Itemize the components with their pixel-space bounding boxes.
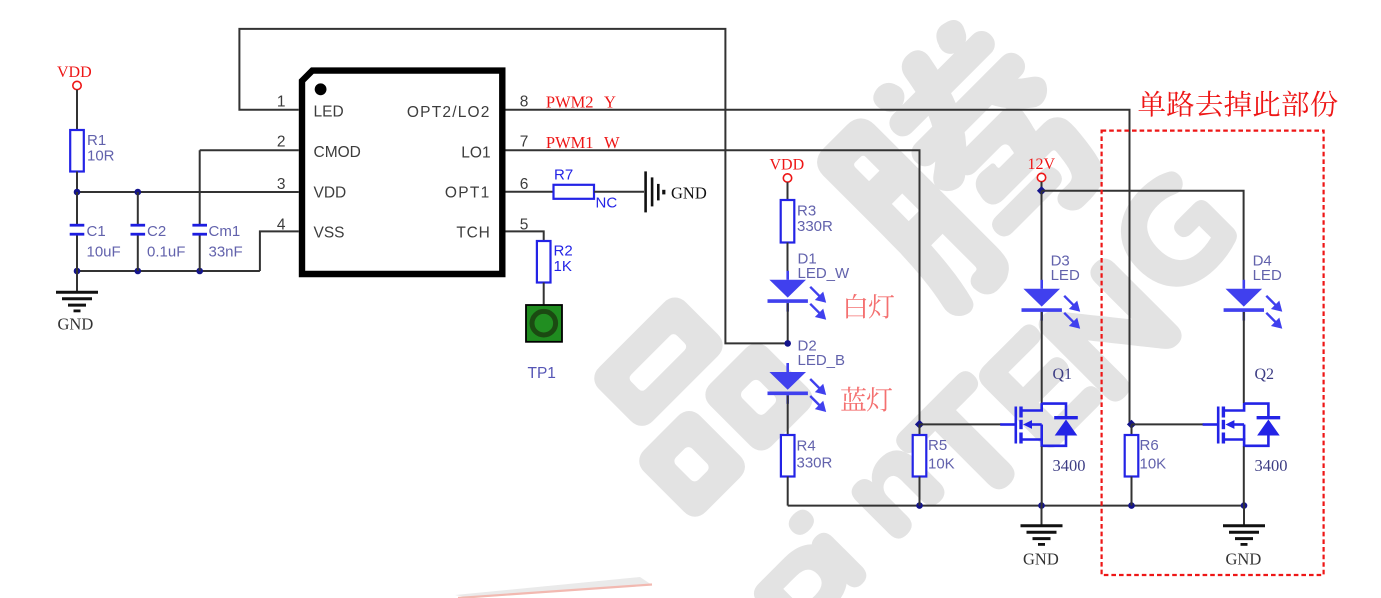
node R5 bottom [916,502,923,509]
diode D3 LED [1040,280,1043,289]
node R5 top gate [915,420,924,429]
svg-text:12V: 12V [1028,156,1056,173]
svg-text:330R: 330R [797,218,833,235]
wire 12V to D4 branch [1042,191,1244,280]
wire 12V to D3 [1041,191,1043,280]
capacitor Cm1 [199,150,201,225]
op-amp U1 touch controller IC body [302,71,502,274]
svg-text:LO1: LO1 [461,144,490,161]
svg-text:OPT2/LO2: OPT2/LO2 [407,104,491,121]
svg-text:TP1: TP1 [528,365,556,382]
wire R5 to Q1 gate [920,423,1002,425]
svg-text:33nF: 33nF [209,244,243,261]
svg-text:1: 1 [277,93,286,110]
wire Q1 source to rail [1041,447,1043,506]
svg-text:R6: R6 [1140,437,1159,454]
svg-text:4: 4 [277,216,286,233]
svg-text:CMOD: CMOD [314,144,361,161]
svg-text:VDD: VDD [314,185,347,202]
resistor R5 [919,424,921,435]
svg-text:R2: R2 [554,243,573,260]
wire VDD to R3 [787,182,789,200]
svg-text:10R: 10R [87,147,115,164]
svg-text:VSS: VSS [314,224,345,241]
svg-text:3400: 3400 [1255,456,1288,475]
diode D4 LED [1243,280,1246,289]
svg-text:2: 2 [277,134,286,151]
resistor R7 [554,185,595,199]
wire pin5 to R2 [506,231,544,241]
wire CMOD branch [200,149,299,151]
wire R3 to D1 [787,243,789,273]
wire PWM2 net pin8 to Q2 gate [506,110,1130,425]
svg-text:W: W [604,133,620,152]
pin-1 orientation dot [315,83,327,95]
wire GND rail [77,270,260,272]
svg-text:10K: 10K [1140,455,1167,472]
resistor R6 [1131,424,1133,435]
svg-text:PWM1: PWM1 [546,133,594,152]
resistor R4 [781,435,795,477]
svg-text:0.1uF: 0.1uF [147,244,185,261]
svg-text:LED: LED [314,104,344,121]
wire bottom ground rail [788,505,1244,507]
ground GND left [76,271,78,292]
node R6 top gate [1127,420,1136,429]
resistor R1 [70,130,84,172]
svg-text:Q2: Q2 [1255,366,1275,383]
svg-text:VDD: VDD [57,64,92,81]
node D1-D2 [784,340,791,347]
ground signal GND pin6 [646,171,664,212]
wire R2 to TP1 [543,283,545,306]
svg-text:R4: R4 [797,438,816,455]
svg-text:C1: C1 [87,223,106,240]
wire R4 to rail [787,477,789,506]
svg-text:GND: GND [1023,549,1059,568]
label white light [846,294,866,319]
resistor R2 [537,241,551,283]
svg-text:GND: GND [671,183,707,202]
wire R1 to rail [76,172,78,193]
resistor R3 [781,200,795,243]
capacitor C2 [137,192,139,225]
node junctions top rail [74,189,81,196]
svg-text:TCH: TCH [456,224,490,241]
svg-text:Q1: Q1 [1053,366,1073,383]
svg-text:Cm1: Cm1 [209,223,241,240]
wire VDD rail [77,191,299,193]
wire R7 to ground [594,191,644,193]
decorative streaks [455,577,652,598]
svg-text:8: 8 [520,93,529,110]
ground GND Q2 [1243,506,1245,526]
wire R6 to Q2 gate [1132,423,1204,425]
ground GND Q1 [1041,506,1043,526]
svg-text:Y: Y [604,92,616,111]
svg-text:3400: 3400 [1053,456,1086,475]
svg-text:GND: GND [1226,549,1262,568]
node Q2 source [1241,502,1248,509]
svg-text:VDD: VDD [770,157,805,174]
diode D1 LED white [786,271,789,280]
svg-text:C2: C2 [147,223,166,240]
svg-text:3: 3 [277,176,286,193]
svg-text:LED_W: LED_W [798,265,851,282]
annotation dashed box single-channel removal [1102,131,1324,575]
svg-text:R5: R5 [928,437,947,454]
svg-text:LED_B: LED_B [798,352,846,369]
wire D4 to Q2 drain [1243,312,1245,403]
wire D3 to Q1 drain [1041,312,1043,403]
transistor Q1 MOSFET [1000,403,1066,447]
wire VSS branch [260,231,299,271]
svg-text:R7: R7 [554,166,573,183]
svg-text:LED: LED [1253,267,1282,284]
annotation title remove this part [1138,91,1165,117]
svg-text:LED: LED [1051,267,1080,284]
label blue light [841,387,866,411]
diode D2 LED blue [786,363,789,372]
capacitor C1 [76,192,78,225]
svg-text:7: 7 [520,134,529,151]
svg-text:NC: NC [596,195,618,212]
node R6 bottom [1128,502,1135,509]
svg-text:R3: R3 [797,203,816,220]
svg-text:GND: GND [58,315,94,334]
decorative watermark [569,273,818,522]
wire PWM1 net pin7 to Q1 gate [506,150,920,424]
node 12V [1041,182,1043,191]
wire Q2 source to rail [1243,447,1245,506]
wire pin1 LED loop to D1-D2 node [239,29,787,344]
svg-text:330R: 330R [797,455,833,472]
wire D1 to node [787,303,789,343]
wire VDD to R1 [76,90,78,130]
wire pin6 to R7 [506,191,554,193]
node Q1 source [1038,502,1045,509]
transistor Q2 MOSFET [1203,403,1269,447]
node junctions bottom rail [74,268,81,275]
test point TP1 [526,305,562,342]
svg-text:PWM2: PWM2 [546,92,594,111]
svg-text:10uF: 10uF [87,244,121,261]
svg-text:6: 6 [520,176,529,193]
svg-text:10K: 10K [928,455,955,472]
svg-text:1K: 1K [554,258,572,275]
wire D2 to R4 [787,396,789,436]
svg-text:OPT1: OPT1 [445,185,491,202]
